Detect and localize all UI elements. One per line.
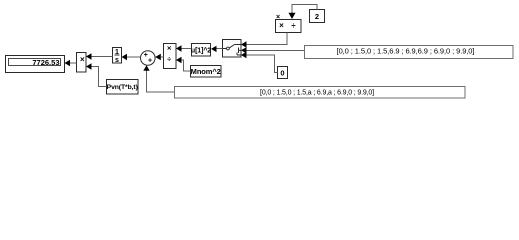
svg-text:2: 2 xyxy=(315,12,319,21)
wire from Pvn block output to product input 2 xyxy=(92,67,107,87)
wire from 2 constant to top divide xyxy=(292,5,317,14)
arrowhead into sum bottom input xyxy=(143,65,149,71)
product block P (x) xyxy=(77,53,87,73)
svg-text:÷: ÷ xyxy=(291,21,296,30)
wire from Mnom^2 output to divide input 2 xyxy=(182,60,191,71)
fcn block Pvn(T*b,t) xyxy=(107,80,139,95)
wire from 0 constant to switch input 3 xyxy=(247,55,278,73)
divide block x over divide xyxy=(164,44,177,69)
fcn block u[1]^2 xyxy=(191,44,211,57)
wire from top vector block to switch input 2 xyxy=(247,49,305,51)
switch block xyxy=(223,40,242,58)
constant block 2 xyxy=(310,10,325,23)
wire from sum output to integrator xyxy=(127,56,141,58)
wire from top divide output down to switch input 1 xyxy=(247,33,288,45)
wire from switch output to u[1]^2 xyxy=(217,48,223,50)
svg-text:[0,0 ; 1.5,0 ; 1.5,6.9 ; 6.9,6: [0,0 ; 1.5,0 ; 1.5,6.9 ; 6.9,6.9 ; 6.9,0… xyxy=(337,46,475,55)
svg-text:×: × xyxy=(80,55,85,64)
svg-text:7726.53: 7726.53 xyxy=(32,58,59,67)
wire from bottom vector block to sum bottom input xyxy=(147,71,175,92)
wire from divide output to sum xyxy=(161,56,164,58)
divide block top (rotated, x and divide) xyxy=(276,20,302,33)
svg-text:÷: ÷ xyxy=(167,55,171,64)
svg-text:+: + xyxy=(148,57,152,64)
arrowhead into u[1]^2 xyxy=(211,46,217,52)
arrowhead into product input 1 xyxy=(86,53,92,59)
arrowhead into divide input 1 xyxy=(176,45,182,51)
wire from integrator output to product input 1 xyxy=(92,56,113,58)
arrowhead into sum right input xyxy=(155,54,161,60)
svg-text:0: 0 xyxy=(280,68,284,77)
svg-text:Pvn(T*b,t): Pvn(T*b,t) xyxy=(107,84,138,91)
svg-text:[0,0 ; 1.5,0 ; 1.5,a ; 6.9,a ;: [0,0 ; 1.5,0 ; 1.5,a ; 6.9,a ; 6.9,0 ; 9… xyxy=(260,89,374,96)
integrator 1/s xyxy=(113,48,122,65)
arrowhead into integrator xyxy=(122,54,128,60)
fcn block Mnom^2 xyxy=(191,66,222,78)
constant vector block bottom xyxy=(175,87,466,99)
wire from u[1]^2 output to divide input 1 xyxy=(182,48,192,50)
arrowhead into switch input 3 xyxy=(241,52,247,58)
constant block 0 xyxy=(278,67,288,79)
display block 7726.53 xyxy=(6,56,65,73)
arrowhead into divide input 2 xyxy=(176,57,182,63)
svg-text:×: × xyxy=(276,14,280,21)
arrowhead into switch input 1 xyxy=(241,41,247,47)
svg-text:u[1]^2: u[1]^2 xyxy=(191,47,211,55)
arrowhead into display xyxy=(65,60,71,66)
svg-text:×: × xyxy=(279,21,284,30)
sum junction xyxy=(141,51,156,66)
arrowhead into switch input 2 xyxy=(241,47,247,53)
svg-text:×: × xyxy=(167,44,172,53)
wire from product output to display xyxy=(70,62,77,64)
svg-text:Mnom^2: Mnom^2 xyxy=(191,67,221,76)
arrowhead into top divide block xyxy=(289,13,296,19)
svg-text:s: s xyxy=(115,57,119,64)
constant vector block top right xyxy=(305,46,514,59)
arrowhead into product input 2 xyxy=(86,63,92,69)
